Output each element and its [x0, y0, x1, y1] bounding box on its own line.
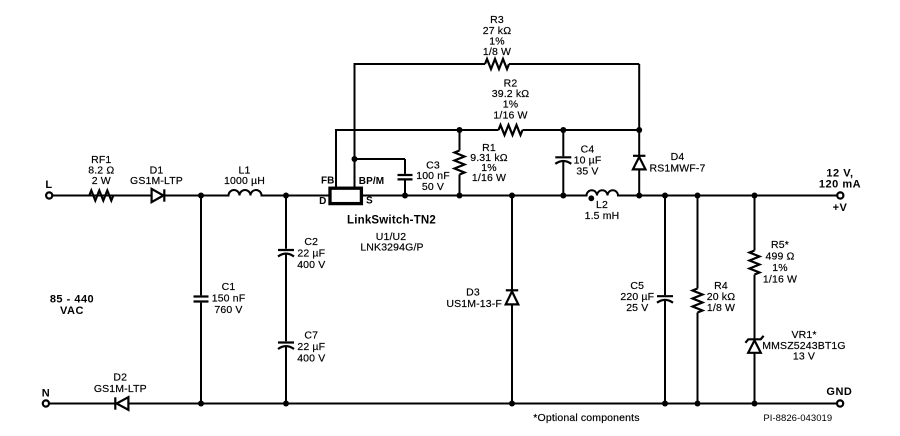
svg-text:C1: C1 — [222, 281, 236, 293]
svg-text:1%: 1% — [772, 262, 787, 274]
svg-text:FB: FB — [321, 176, 335, 187]
svg-text:760 V: 760 V — [214, 304, 242, 316]
svg-text:RS1MWF-7: RS1MWF-7 — [649, 162, 705, 174]
svg-text:+V: +V — [833, 202, 848, 214]
svg-text:22 µF: 22 µF — [297, 248, 325, 260]
svg-text:150 nF: 150 nF — [212, 293, 246, 305]
svg-text:US1M-13-F: US1M-13-F — [446, 298, 502, 310]
svg-text:D2: D2 — [113, 372, 127, 384]
svg-text:1000 µH: 1000 µH — [224, 175, 265, 187]
svg-text:120 mA: 120 mA — [819, 178, 861, 190]
svg-text:400 V: 400 V — [297, 352, 325, 364]
svg-text:1.5 mH: 1.5 mH — [585, 210, 620, 222]
svg-text:D3: D3 — [466, 287, 480, 299]
svg-text:1/8 W: 1/8 W — [483, 46, 511, 58]
svg-text:GS1M-LTP: GS1M-LTP — [94, 383, 147, 395]
svg-text:LNK3294G/P: LNK3294G/P — [360, 242, 423, 254]
svg-text:400 V: 400 V — [297, 259, 325, 271]
svg-text:1/16 W: 1/16 W — [472, 172, 506, 184]
svg-text:D4: D4 — [671, 151, 685, 163]
svg-text:50 V: 50 V — [422, 181, 444, 193]
svg-text:1/16 W: 1/16 W — [763, 274, 797, 286]
svg-text:C2: C2 — [304, 236, 318, 248]
svg-text:85 - 440: 85 - 440 — [50, 294, 94, 306]
svg-text:1/8 W: 1/8 W — [707, 302, 735, 314]
svg-text:499 Ω: 499 Ω — [765, 251, 794, 263]
svg-text:L: L — [45, 179, 52, 191]
svg-text:PI-8826-043019: PI-8826-043019 — [763, 413, 832, 424]
svg-text:VAC: VAC — [60, 305, 84, 317]
svg-text:GS1M-LTP: GS1M-LTP — [130, 175, 183, 187]
svg-text:1/16 W: 1/16 W — [493, 109, 527, 121]
svg-text:25 V: 25 V — [626, 302, 648, 314]
svg-text:S: S — [366, 196, 373, 207]
svg-text:GND: GND — [826, 386, 852, 398]
svg-text:13 V: 13 V — [793, 351, 815, 363]
svg-text:2 W: 2 W — [92, 175, 111, 187]
svg-text:*Optional components: *Optional components — [533, 412, 639, 424]
svg-text:22 µF: 22 µF — [297, 341, 325, 353]
svg-text:C7: C7 — [304, 329, 318, 341]
svg-text:R5*: R5* — [771, 239, 789, 251]
svg-text:LinkSwitch-TN2: LinkSwitch-TN2 — [347, 215, 436, 227]
svg-text:N: N — [42, 387, 50, 399]
svg-text:D: D — [319, 196, 326, 207]
svg-text:35 V: 35 V — [576, 166, 598, 178]
svg-text:BP/M: BP/M — [359, 176, 384, 187]
